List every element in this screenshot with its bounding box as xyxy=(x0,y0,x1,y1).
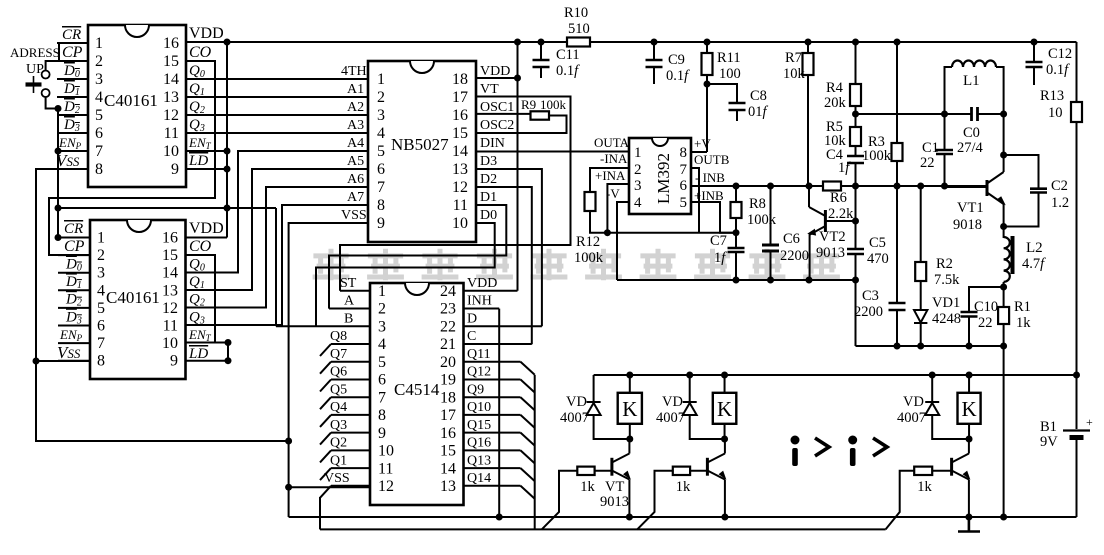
wire R2 VD1 branch xyxy=(920,187,922,346)
junction dot emitter stage1 xyxy=(626,514,633,521)
svg-text:OUTB: OUTB xyxy=(694,152,730,167)
wire L2 bottom xyxy=(1003,282,1005,287)
svg-text:4: 4 xyxy=(97,282,105,299)
svg-text:VD1: VD1 xyxy=(932,295,960,311)
junction dots U1 EN_T LD xyxy=(224,148,231,173)
svg-text:C: C xyxy=(467,329,476,344)
wire comparator node xyxy=(607,232,736,234)
resistor R1 xyxy=(998,307,1009,324)
svg-text:12: 12 xyxy=(378,478,394,495)
wire base stage1 xyxy=(595,470,612,472)
junction dots switch net xyxy=(55,105,62,155)
svg-text:8: 8 xyxy=(378,407,386,424)
wire U2 Q2 to U3 A6 xyxy=(186,187,369,308)
svg-text:ST: ST xyxy=(340,276,357,291)
wire U3 OSC1 to R9 xyxy=(476,113,531,115)
pushbutton switch contacts xyxy=(42,71,50,98)
wire relay rail drop diode stage1 xyxy=(593,375,595,402)
svg-text:8: 8 xyxy=(97,353,105,370)
svg-text:12: 12 xyxy=(162,300,178,317)
svg-text:C10: C10 xyxy=(974,299,998,315)
wire R4 R5 C4 chain xyxy=(855,42,857,187)
svg-text:7: 7 xyxy=(377,179,385,196)
svg-text:4.7f: 4.7f xyxy=(1022,256,1046,272)
relay K stage1 xyxy=(618,393,642,424)
svg-text:6: 6 xyxy=(680,178,688,194)
wire C3 branch xyxy=(896,187,898,346)
svg-text:VDD: VDD xyxy=(480,64,510,79)
wire U3 VT to U4 ST xyxy=(340,97,571,291)
svg-text:R11: R11 xyxy=(717,50,741,66)
svg-text:1: 1 xyxy=(95,35,103,52)
wire U3 DIN to U5 OUTA xyxy=(476,151,629,153)
svg-text:2200: 2200 xyxy=(854,304,883,320)
junction dot U2 CR xyxy=(55,234,62,241)
svg-text:C40161: C40161 xyxy=(104,91,158,110)
IC C40161 upper (U1) xyxy=(88,25,186,187)
svg-text:1k: 1k xyxy=(580,479,595,495)
wire tank feed xyxy=(856,113,945,115)
svg-text:1k: 1k xyxy=(917,479,932,495)
svg-text:3: 3 xyxy=(378,319,386,336)
svg-text:VT2: VT2 xyxy=(819,229,846,245)
wire address net to U4 B pin xyxy=(275,208,277,326)
IC U4 right pin labels xyxy=(467,276,497,486)
svg-text:C4514: C4514 xyxy=(394,380,440,399)
wire U5 +INA down xyxy=(607,184,629,233)
svg-text:R2: R2 xyxy=(936,256,953,272)
svg-text:CP: CP xyxy=(64,238,85,255)
svg-text:5: 5 xyxy=(377,143,385,160)
svg-text:R10: R10 xyxy=(564,5,588,21)
junction dots stage1 xyxy=(626,372,633,443)
resistor R10 xyxy=(567,38,590,47)
svg-text:Q1: Q1 xyxy=(330,453,347,468)
wire C5 in vertical xyxy=(855,163,857,346)
resistor R13 xyxy=(1071,102,1082,122)
junction dots mid ground rail xyxy=(894,343,1008,350)
capacitor C4 xyxy=(847,156,864,163)
svg-text:7: 7 xyxy=(680,162,688,178)
wire emitter stage1 xyxy=(628,480,630,518)
svg-text:9: 9 xyxy=(377,215,385,232)
wire VT1 collector xyxy=(1003,114,1005,172)
svg-text:4: 4 xyxy=(95,89,103,106)
svg-text:Q9: Q9 xyxy=(467,382,484,397)
svg-text:8: 8 xyxy=(680,145,688,161)
wire U4 INH to ground xyxy=(498,309,500,517)
wire U1 CP to switch xyxy=(46,61,88,70)
wire base feed stage1 xyxy=(542,471,578,530)
bus vertical left of U4 xyxy=(319,497,321,529)
wire to C8 xyxy=(707,84,737,121)
svg-text:9: 9 xyxy=(170,353,178,370)
svg-text:5: 5 xyxy=(97,300,105,317)
svg-text:16: 16 xyxy=(452,107,468,124)
junction dot INH ground xyxy=(496,514,503,521)
svg-text:6: 6 xyxy=(377,161,385,178)
svg-text:+V: +V xyxy=(694,136,711,151)
bus entry slashes U4 left xyxy=(320,344,331,498)
junction dot VT2 base xyxy=(852,218,859,225)
svg-text:R7: R7 xyxy=(785,50,802,66)
wire R11 branch xyxy=(691,42,707,152)
IC U5 pin labels xyxy=(594,135,730,203)
svg-text:7: 7 xyxy=(97,335,105,352)
svg-text:9018: 9018 xyxy=(953,217,982,233)
wire switch net vertical xyxy=(57,109,59,238)
svg-text:11: 11 xyxy=(163,318,178,335)
wire U3-U4 VDD vertical xyxy=(517,42,519,291)
svg-text:1: 1 xyxy=(377,71,385,88)
svg-text:1.2: 1.2 xyxy=(1051,195,1069,211)
svg-text:15: 15 xyxy=(452,125,468,142)
junction dots on VDD rail xyxy=(224,39,1038,46)
svg-text:7: 7 xyxy=(378,389,386,406)
wire battery bottom xyxy=(1076,440,1078,517)
resistor R4 xyxy=(850,84,861,106)
junction dot U3 VDD xyxy=(514,75,521,82)
svg-text:13: 13 xyxy=(440,478,456,495)
wire C1 branch xyxy=(944,114,946,187)
svg-text:16: 16 xyxy=(163,35,179,52)
svg-text:LD: LD xyxy=(188,153,208,169)
wire U5 +INB xyxy=(691,202,736,233)
svg-text:VSS: VSS xyxy=(324,471,350,486)
svg-text:CO: CO xyxy=(189,44,212,61)
svg-text:0.1f: 0.1f xyxy=(1046,62,1070,78)
junction dots -INB line xyxy=(733,183,949,190)
IC C4514 (U4) xyxy=(370,283,464,505)
wire U3 VSS down xyxy=(289,223,368,517)
svg-text:C1: C1 xyxy=(922,140,939,156)
wire address-set net horizontal xyxy=(58,207,276,209)
svg-text:Q13: Q13 xyxy=(467,453,491,468)
svg-text:CR: CR xyxy=(62,27,81,43)
wire mid-ground to bottom ground xyxy=(1003,346,1005,517)
svg-text:Q3: Q3 xyxy=(330,418,347,433)
continuation marks (i > i >) xyxy=(791,436,858,467)
wire tank right leg xyxy=(996,67,1004,114)
wire Vss chain to ground xyxy=(36,169,289,441)
wire C10 branch xyxy=(969,287,1004,346)
svg-text:C2: C2 xyxy=(1051,178,1068,194)
svg-text:VD: VD xyxy=(662,394,683,410)
wire diode to junction stage1 xyxy=(594,415,630,439)
svg-text:NB5027: NB5027 xyxy=(391,135,449,154)
svg-text:A2: A2 xyxy=(347,100,364,115)
svg-text:VDD: VDD xyxy=(189,220,224,237)
svg-text:D: D xyxy=(467,312,477,327)
svg-text:10: 10 xyxy=(1048,105,1063,121)
wire C11 stem xyxy=(540,42,542,78)
svg-text:9: 9 xyxy=(378,425,386,442)
battery B1 xyxy=(1063,429,1090,431)
svg-text:0.1f: 0.1f xyxy=(666,68,690,84)
junction dot emitter stage3 xyxy=(965,514,972,521)
svg-text:A: A xyxy=(344,294,355,309)
resistor R7 xyxy=(803,53,814,75)
wire C9 stem xyxy=(653,42,655,84)
IC U4 left pin labels xyxy=(324,276,357,486)
svg-text:11: 11 xyxy=(378,460,393,477)
wire relay rail drop diode stage2 xyxy=(689,375,691,402)
capacitor C12 xyxy=(1026,62,1043,67)
svg-text:D1: D1 xyxy=(480,190,497,205)
svg-text:14: 14 xyxy=(452,143,468,160)
svg-text:2.2k: 2.2k xyxy=(828,206,854,222)
junction dot R4 bottom xyxy=(852,111,859,118)
capacitor C1 xyxy=(936,150,953,154)
svg-text:2: 2 xyxy=(95,53,103,70)
junction dots tank xyxy=(941,111,1007,118)
svg-text:OSC1: OSC1 xyxy=(480,100,514,115)
svg-text:18: 18 xyxy=(452,71,468,88)
svg-text:CO: CO xyxy=(189,238,212,255)
capacitor C11 xyxy=(533,60,550,67)
svg-text:10k: 10k xyxy=(783,66,806,82)
svg-text:C40161: C40161 xyxy=(106,288,160,307)
IC U2 right pin labels xyxy=(188,220,224,362)
resistor R11 xyxy=(702,53,713,75)
junction dot R11 C8 xyxy=(704,81,711,88)
resistor R6 xyxy=(823,182,841,191)
diode VD stage3 xyxy=(925,402,939,415)
capacitor C5 xyxy=(847,249,864,254)
IC U1 right pin labels xyxy=(188,25,224,169)
svg-text:16: 16 xyxy=(440,425,456,442)
wire collector stage2 xyxy=(724,439,726,454)
svg-text:A1: A1 xyxy=(347,82,364,97)
svg-text:L2: L2 xyxy=(1026,240,1043,256)
svg-text:C0: C0 xyxy=(963,125,980,141)
resistor R8 xyxy=(731,202,742,218)
wire U3 D1 to U4 A xyxy=(329,205,506,309)
svg-text:B1: B1 xyxy=(1040,419,1057,435)
wire collector stage1 xyxy=(628,439,630,454)
svg-text:18: 18 xyxy=(440,389,456,406)
svg-text:10: 10 xyxy=(162,335,178,352)
wire U1 CR to CP tie xyxy=(59,43,88,61)
IC U3 left pin labels xyxy=(341,64,367,223)
transistor stage3 xyxy=(952,454,970,480)
wire U5 OUTB feedback xyxy=(691,168,699,233)
wire L2 top xyxy=(1003,227,1005,239)
svg-text:9V: 9V xyxy=(1040,434,1058,450)
svg-text:Q7: Q7 xyxy=(330,347,347,362)
svg-text:A3: A3 xyxy=(347,118,364,133)
svg-text:A4: A4 xyxy=(347,136,364,151)
svg-text:C7: C7 xyxy=(710,233,727,249)
transistor VT2 xyxy=(809,207,856,235)
junction dots VT1 xyxy=(1000,152,1007,231)
svg-text:13: 13 xyxy=(452,161,468,178)
svg-text:Q10: Q10 xyxy=(467,400,491,415)
IC U3 pin numbers xyxy=(377,71,468,232)
svg-text:1: 1 xyxy=(97,230,105,247)
svg-text:R1: R1 xyxy=(1014,299,1031,315)
transistor stage2 xyxy=(707,454,725,480)
svg-text:3: 3 xyxy=(95,71,103,88)
op-amp IC LM392 (U5) xyxy=(629,138,691,214)
svg-text:Q12: Q12 xyxy=(467,365,491,380)
inductor L2 core bar xyxy=(1011,236,1015,274)
svg-text:8: 8 xyxy=(377,197,385,214)
svg-text:INH: INH xyxy=(467,294,492,309)
svg-text:LD: LD xyxy=(188,346,208,362)
svg-text:4007: 4007 xyxy=(897,410,926,426)
svg-text:10: 10 xyxy=(163,143,179,160)
svg-text:2: 2 xyxy=(97,247,105,264)
svg-text:R13: R13 xyxy=(1040,88,1064,104)
svg-text:D3: D3 xyxy=(480,154,497,169)
svg-text:22: 22 xyxy=(920,155,935,171)
watermark band middle xyxy=(313,249,840,281)
resistor R2 xyxy=(915,262,926,281)
svg-text:R9: R9 xyxy=(521,97,536,112)
svg-text:100: 100 xyxy=(719,66,741,82)
wire diode to junction stage3 xyxy=(932,415,969,439)
wire relay rail drop diode stage3 xyxy=(931,375,933,402)
svg-text:+: + xyxy=(1086,415,1093,429)
resistor R9 xyxy=(531,111,550,119)
junction dots stage3 xyxy=(966,372,973,443)
svg-text:LM392: LM392 xyxy=(654,153,673,204)
svg-text:1f: 1f xyxy=(714,250,727,266)
svg-text:1k: 1k xyxy=(676,479,691,495)
svg-text:19: 19 xyxy=(440,372,456,389)
svg-text:VD: VD xyxy=(903,394,924,410)
svg-text:4: 4 xyxy=(378,336,386,353)
svg-text:13: 13 xyxy=(162,282,178,299)
wire U5 -V to bottom xyxy=(617,202,629,280)
svg-text:VT1: VT1 xyxy=(957,200,984,216)
relay supply rail xyxy=(594,374,1077,376)
svg-text:5: 5 xyxy=(95,107,103,124)
svg-text:3: 3 xyxy=(97,265,105,282)
VDD top rail xyxy=(186,41,1077,43)
wire tank left leg xyxy=(945,67,953,114)
IC U5 pin numbers xyxy=(634,145,688,211)
junction dot L2 bottom xyxy=(1000,284,1007,291)
svg-text:4TH: 4TH xyxy=(341,64,367,79)
wire base feed stage2 xyxy=(637,471,673,530)
svg-text:DIN: DIN xyxy=(480,136,505,151)
wire VDD trunk to U2 xyxy=(186,42,228,238)
svg-text:VSS: VSS xyxy=(341,208,367,223)
IC U1 pin numbers xyxy=(95,35,179,178)
svg-text:C6: C6 xyxy=(783,231,800,247)
wire emitter stage2 xyxy=(724,480,726,518)
junction dots U2 EN_T LD xyxy=(225,339,232,364)
wire relay coil stage3 xyxy=(968,375,970,439)
svg-text:A7: A7 xyxy=(347,190,364,205)
wire base stage3 xyxy=(932,470,951,472)
junction dot R12 node xyxy=(604,229,611,236)
wire R8 C7 branch xyxy=(735,186,737,280)
svg-text:9013: 9013 xyxy=(600,494,629,510)
wire R7 branch xyxy=(807,42,809,187)
wire VT1 emitter xyxy=(1003,204,1005,227)
svg-text:15: 15 xyxy=(163,53,179,70)
transistor stage1 xyxy=(612,454,630,480)
IC U3 right pin labels xyxy=(480,64,514,223)
pushbutton actuator xyxy=(33,76,35,93)
wire U1 LD stub xyxy=(186,168,227,170)
svg-text:ADRESS: ADRESS xyxy=(10,45,60,60)
bus entry slashes U4 right xyxy=(521,362,535,499)
svg-text:B: B xyxy=(344,312,353,327)
svg-text:3: 3 xyxy=(634,178,642,194)
junction dots VSS vertical xyxy=(285,484,292,491)
wire U1 CO to U2 CP cascade xyxy=(49,61,215,255)
svg-text:VSS: VSS xyxy=(57,343,81,362)
svg-text:Q8: Q8 xyxy=(330,329,347,344)
svg-text:L1: L1 xyxy=(963,73,980,89)
wire relay coil stage1 xyxy=(629,375,631,439)
ground symbol xyxy=(958,517,980,532)
svg-text:VT: VT xyxy=(480,82,499,97)
svg-text:6: 6 xyxy=(378,372,386,389)
svg-text:CP: CP xyxy=(62,44,83,61)
svg-text:22: 22 xyxy=(978,315,993,331)
wire switch bottom to net xyxy=(46,97,58,109)
svg-text:-INA: -INA xyxy=(600,151,628,166)
svg-text:K: K xyxy=(961,397,976,421)
svg-text:VDD: VDD xyxy=(189,25,224,42)
capacitor C7 xyxy=(728,248,745,252)
ground bottom rail xyxy=(289,516,1077,518)
wire -INB long line xyxy=(691,185,987,187)
svg-text:1f: 1f xyxy=(838,160,851,176)
wire relay coil stage2 xyxy=(724,375,726,439)
svg-text:R4: R4 xyxy=(826,80,844,96)
inductor L1 xyxy=(952,61,996,68)
svg-text:14: 14 xyxy=(162,265,178,282)
svg-text:6: 6 xyxy=(97,318,105,335)
svg-text:17: 17 xyxy=(440,407,456,424)
junction dot R8 bottom xyxy=(733,229,740,236)
svg-text:1: 1 xyxy=(634,145,642,161)
svg-text:4: 4 xyxy=(377,125,385,142)
svg-text:16: 16 xyxy=(162,230,178,247)
svg-text:27/4: 27/4 xyxy=(957,140,984,156)
wire U2 EN_T stub xyxy=(186,342,229,344)
resistor R3 xyxy=(892,143,903,161)
junction dot at ground rail xyxy=(1000,514,1007,521)
svg-text:4248: 4248 xyxy=(932,311,961,327)
wire R1 branch xyxy=(1003,287,1005,346)
svg-text:C3: C3 xyxy=(862,288,879,304)
svg-text:Q2: Q2 xyxy=(330,436,347,451)
svg-text:14: 14 xyxy=(440,460,456,477)
svg-text:OUTA: OUTA xyxy=(594,135,630,150)
svg-text:5: 5 xyxy=(378,354,386,371)
relay K stage3 xyxy=(958,393,981,424)
svg-text:Q14: Q14 xyxy=(467,471,491,486)
wire U1 Q0 to U3 4TH xyxy=(186,78,368,80)
svg-text:8: 8 xyxy=(95,161,103,178)
junction dot emitter stage2 xyxy=(721,514,728,521)
resistor 1k stage2 xyxy=(673,467,690,475)
wire C12 branch xyxy=(1033,42,1035,85)
svg-text:OSC2: OSC2 xyxy=(480,118,514,133)
junction dots analog bottom xyxy=(733,277,860,284)
wire U2 Vss stub xyxy=(36,360,90,362)
wire U3 D2 to U4 C xyxy=(476,187,532,344)
svg-text:15: 15 xyxy=(162,247,178,264)
svg-text:+INA: +INA xyxy=(595,168,626,183)
